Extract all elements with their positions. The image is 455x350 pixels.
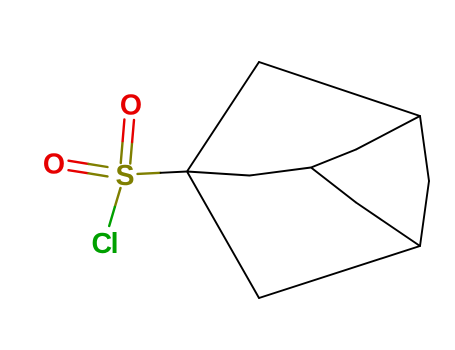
bond S-Cl green half (109, 207, 115, 226)
svg-text:Cl: Cl (92, 228, 118, 260)
svg-text:O: O (43, 148, 65, 180)
bond S-Cl olive half (115, 188, 121, 207)
bond m2-RL (356, 203, 420, 247)
bond S=O left (double), red halves (69, 161, 89, 174)
bond mR-RL (420, 181, 429, 246)
bond RU-mR (420, 116, 429, 181)
bond m1-RU (356, 116, 420, 150)
bond S=O left (double), olive halves (89, 164, 108, 177)
bond L-B (187, 172, 259, 299)
svg-text:S: S (115, 160, 134, 192)
bond B-RL (259, 246, 420, 298)
bond M-m1 (311, 150, 356, 168)
bond L-mLM (187, 172, 250, 176)
bond T-RU (259, 62, 420, 116)
bond M-m2 (311, 168, 356, 203)
bond L-T (187, 62, 259, 172)
bond mLM-M (250, 168, 312, 176)
adamantane cage (187, 62, 429, 298)
bond S-C1 olive half (138, 173, 161, 174)
bond S=O top (double), olive halves (121, 141, 132, 163)
bond S-C1 black half (161, 172, 188, 173)
bond S=O top (double), red halves (123, 120, 134, 143)
svg-text:O: O (120, 90, 142, 122)
